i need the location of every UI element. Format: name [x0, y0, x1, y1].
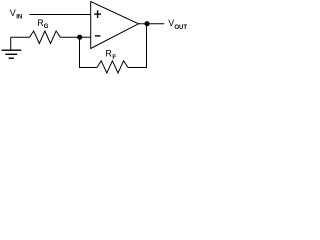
label RF: [105, 49, 116, 62]
node A inverting input junction: [77, 35, 82, 40]
wire feedback bottom left: [79, 67, 97, 69]
resistor RF: [97, 61, 128, 73]
wire node A to op-amp inverting input: [80, 36, 92, 38]
op-amp U1: [91, 2, 139, 49]
wire feedback left vertical: [79, 37, 81, 67]
wire RG to inverting input node: [60, 36, 79, 38]
label RG: [37, 18, 48, 30]
wire op-amp output: [139, 23, 165, 25]
svg-text:V: V: [10, 8, 16, 18]
ground: [2, 37, 22, 58]
svg-text:OUT: OUT: [174, 25, 187, 31]
wire feedback right vertical: [146, 24, 148, 68]
wire feedback bottom right: [128, 67, 147, 69]
net label VOUT: [168, 18, 187, 31]
svg-text:G: G: [44, 24, 49, 30]
wire ground to RG: [11, 36, 30, 38]
net label VIN: [10, 8, 22, 21]
wire VIN to op-amp noninverting input: [30, 14, 92, 16]
svg-text:R: R: [105, 49, 112, 59]
node B output junction: [144, 21, 149, 26]
svg-text:IN: IN: [16, 15, 22, 21]
resistor RG: [30, 31, 61, 44]
svg-text:F: F: [112, 55, 116, 61]
